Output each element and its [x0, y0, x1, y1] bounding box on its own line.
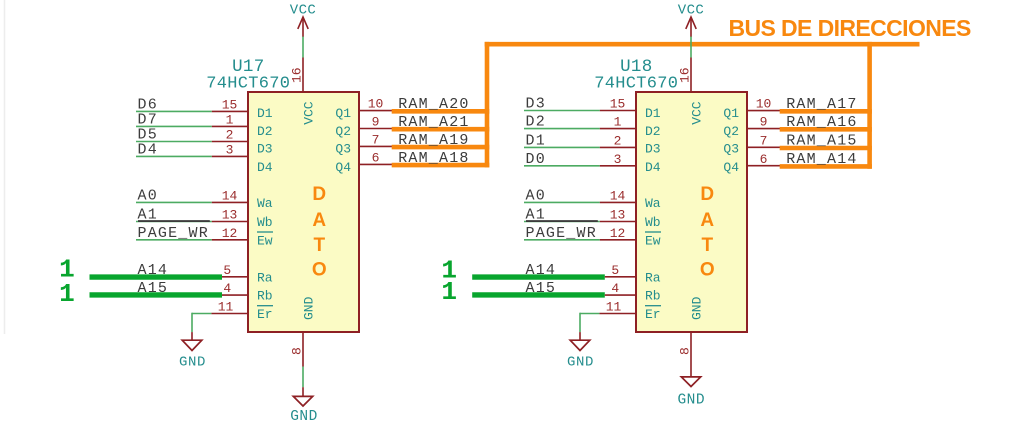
- pin 10 (Q1) of U17: [360, 110, 392, 112]
- svg-text:A14: A14: [526, 262, 557, 279]
- pin 2 (D3) of U17: [212, 141, 247, 143]
- pin 6 (Q4) of U18: [748, 165, 780, 167]
- svg-text:RAM_A19: RAM_A19: [398, 132, 469, 149]
- svg-text:D3: D3: [526, 96, 546, 113]
- svg-text:T: T: [313, 235, 325, 256]
- pin 6 (Q4) of U17: [360, 163, 392, 165]
- power symbol VCC above U17: [302, 17, 304, 37]
- svg-text:A0: A0: [138, 187, 158, 204]
- pin 14 (Wa) of U18: [600, 201, 635, 203]
- wire pin 16 to VCC: [690, 36, 692, 57]
- svg-text:3: 3: [614, 152, 622, 167]
- wire net PAGE_WR to pin 12 of U18: [524, 239, 600, 241]
- svg-text:D4: D4: [138, 141, 158, 158]
- ground symbol below U17: [293, 396, 312, 406]
- svg-text:2: 2: [226, 128, 234, 143]
- svg-text:PAGE_WR: PAGE_WR: [138, 225, 209, 242]
- wire pin 11 to GND: [580, 313, 599, 315]
- pin 11 (Er) of U17: [211, 313, 247, 315]
- svg-text:8: 8: [677, 347, 692, 355]
- pin 5 (Ra) of U18: [605, 276, 635, 278]
- svg-text:11: 11: [218, 299, 234, 314]
- svg-text:GND: GND: [677, 392, 705, 408]
- svg-text:Wa: Wa: [645, 196, 661, 211]
- svg-text:D1: D1: [257, 106, 273, 121]
- svg-text:GND: GND: [689, 296, 704, 320]
- svg-text:D1: D1: [526, 132, 546, 149]
- pin 10 (Q1) of U18: [748, 110, 780, 112]
- overline of Ew pin name: [645, 231, 661, 233]
- svg-text:Q4: Q4: [723, 160, 739, 175]
- svg-text:D3: D3: [645, 142, 661, 157]
- wire net D3 to pin 15 of U18: [524, 110, 600, 112]
- svg-text:15: 15: [610, 97, 626, 112]
- orange bus wire net RAM_A15: [780, 146, 872, 151]
- thick wire net A15 (logic 1) to pin 4 of U18: [472, 292, 605, 297]
- wire net PAGE_WR to pin 12 of U17: [136, 239, 212, 241]
- svg-text:GND: GND: [290, 409, 318, 425]
- wire net D6 to pin 15 of U17: [136, 110, 212, 112]
- svg-text:RAM_A21: RAM_A21: [398, 114, 469, 131]
- pin 7 (Q3) of U17: [360, 145, 392, 147]
- svg-text:Ra: Ra: [257, 270, 273, 285]
- svg-text:A1: A1: [138, 207, 158, 224]
- svg-text:16: 16: [289, 67, 304, 83]
- svg-text:4: 4: [611, 281, 619, 296]
- svg-text:VCC: VCC: [290, 2, 316, 18]
- bus vertical segment right (U18 outputs): [867, 42, 872, 169]
- svg-text:Q1: Q1: [723, 106, 739, 121]
- svg-text:6: 6: [760, 152, 768, 167]
- svg-text:A0: A0: [526, 187, 546, 204]
- svg-text:Q1: Q1: [335, 106, 351, 121]
- svg-text:Ew: Ew: [645, 233, 661, 248]
- svg-text:A15: A15: [138, 280, 169, 297]
- svg-text:8: 8: [289, 347, 304, 355]
- pin 12 (Ew) of U17: [212, 239, 247, 241]
- svg-text:Q3: Q3: [723, 142, 739, 157]
- power symbol VCC above U18: [690, 17, 692, 37]
- svg-text:D4: D4: [645, 160, 661, 175]
- svg-text:O: O: [700, 260, 715, 281]
- svg-text:RAM_A16: RAM_A16: [786, 114, 857, 131]
- op-amp-style IC body U17 74HCT670: [248, 92, 359, 332]
- pin 14 (Wa) of U17: [212, 201, 247, 203]
- svg-text:5: 5: [223, 263, 231, 278]
- pin 1 (D2) of U17: [212, 125, 247, 127]
- pin 9 (Q2) of U17: [360, 128, 392, 130]
- svg-text:4: 4: [223, 281, 231, 296]
- svg-text:2: 2: [614, 133, 622, 148]
- svg-text:D1: D1: [645, 106, 661, 121]
- svg-text:Q2: Q2: [335, 124, 351, 139]
- svg-text:16: 16: [677, 67, 692, 83]
- svg-text:RAM_A14: RAM_A14: [786, 151, 857, 168]
- svg-text:GND: GND: [301, 296, 316, 320]
- svg-text:D2: D2: [526, 114, 546, 131]
- svg-text:14: 14: [610, 188, 626, 203]
- orange bus wire net RAM_A16: [780, 127, 872, 132]
- svg-text:RAM_A20: RAM_A20: [398, 96, 469, 113]
- orange bus wire net RAM_A21: [392, 127, 490, 132]
- orange bus wire net RAM_A17: [780, 109, 872, 114]
- svg-text:3: 3: [226, 142, 234, 157]
- bus BUS DE DIRECCIONES horizontal top segment: [485, 42, 920, 47]
- pin 7 (Q3) of U18: [748, 146, 780, 148]
- pin 13 (Wb) of U17: [212, 221, 247, 223]
- svg-text:D4: D4: [257, 160, 273, 175]
- svg-text:13: 13: [610, 208, 626, 223]
- svg-text:BUS DE DIRECCIONES: BUS DE DIRECCIONES: [729, 15, 971, 41]
- svg-text:9: 9: [760, 115, 768, 130]
- pin 15 (D1) of U18: [600, 110, 635, 112]
- svg-text:D2: D2: [645, 124, 661, 139]
- pin 3 (D4) of U17: [212, 155, 247, 157]
- svg-text:14: 14: [222, 188, 238, 203]
- svg-text:5: 5: [611, 263, 619, 278]
- overline of Er pin name: [645, 305, 661, 307]
- wire net D1 to pin 2 of U18: [524, 146, 600, 148]
- svg-text:12: 12: [610, 226, 626, 241]
- svg-text:D3: D3: [257, 142, 273, 157]
- svg-text:Ew: Ew: [257, 233, 273, 248]
- ground symbol at pin 11 of U18: [570, 340, 590, 350]
- svg-text:A14: A14: [138, 262, 169, 279]
- thick wire net A14 (logic 1) to pin 5 of U18: [472, 274, 605, 279]
- svg-text:RAM_A15: RAM_A15: [786, 133, 857, 150]
- svg-text:1: 1: [614, 115, 622, 130]
- wire net A0 to pin 14 of U17: [136, 201, 212, 203]
- svg-text:Q3: Q3: [335, 142, 351, 157]
- svg-text:A: A: [700, 210, 714, 231]
- svg-text:D2: D2: [257, 124, 273, 139]
- dark overlay line on net A1 wire: [526, 220, 598, 222]
- svg-text:RAM_A18: RAM_A18: [398, 150, 469, 167]
- pin 11 (Er) of U18: [599, 313, 635, 315]
- wire net D5 to pin 2 of U17: [136, 141, 212, 143]
- svg-text:Q2: Q2: [723, 124, 739, 139]
- svg-text:RAM_A17: RAM_A17: [786, 96, 857, 113]
- wire pin 8 of U17 to ground: [302, 333, 304, 367]
- pin 2 (D3) of U18: [600, 146, 635, 148]
- wire pin 8 of U18 to ground: [690, 333, 692, 377]
- wire net A1 to pin 13 of U17: [136, 221, 212, 223]
- svg-text:15: 15: [222, 97, 238, 112]
- pin 15 (D1) of U17: [212, 110, 247, 112]
- svg-text:6: 6: [372, 151, 380, 166]
- pin 13 (Wb) of U18: [600, 221, 635, 223]
- pin 9 (Q2) of U18: [748, 128, 780, 130]
- pin 4 (Rb) of U18: [605, 294, 635, 296]
- svg-text:74HCT670: 74HCT670: [594, 75, 678, 94]
- svg-text:A15: A15: [526, 280, 557, 297]
- orange bus wire net RAM_A18: [392, 163, 490, 168]
- svg-text:Rb: Rb: [257, 289, 273, 304]
- orange bus wire net RAM_A19: [392, 145, 490, 150]
- wire net D7 to pin 1 of U17: [136, 125, 212, 127]
- svg-text:VCC: VCC: [689, 101, 704, 125]
- pin 1 (D2) of U18: [600, 128, 635, 130]
- svg-text:74HCT670: 74HCT670: [206, 75, 290, 94]
- wire net A0 to pin 14 of U18: [524, 201, 600, 203]
- thick wire net A15 (logic 1) to pin 4 of U17: [90, 292, 223, 297]
- svg-text:Er: Er: [645, 307, 661, 322]
- svg-text:1: 1: [226, 112, 234, 127]
- ground symbol below U18: [681, 377, 700, 387]
- orange bus wire net RAM_A20: [392, 109, 490, 114]
- ground symbol at pin 11 of U17: [182, 340, 202, 350]
- svg-text:Wb: Wb: [257, 215, 273, 230]
- pin 3 (D4) of U18: [600, 165, 635, 167]
- wire net D4 to pin 3 of U17: [136, 155, 212, 157]
- pin 12 (Ew) of U18: [600, 239, 635, 241]
- pin 16 (VCC) of U17: [302, 58, 304, 92]
- bus vertical segment left (U17 outputs): [485, 42, 490, 167]
- pin 4 (Rb) of U17: [222, 294, 247, 296]
- svg-text:D: D: [312, 184, 326, 205]
- wire net A1 to pin 13 of U18: [524, 221, 600, 223]
- svg-text:GND: GND: [179, 354, 206, 370]
- svg-text:10: 10: [368, 97, 384, 112]
- svg-text:9: 9: [372, 115, 380, 130]
- wire pin 16 to VCC: [302, 36, 304, 57]
- wire net D2 to pin 1 of U18: [524, 128, 600, 130]
- svg-text:10: 10: [756, 97, 772, 112]
- svg-text:11: 11: [606, 299, 622, 314]
- svg-text:Er: Er: [257, 307, 273, 322]
- svg-text:7: 7: [372, 133, 380, 148]
- svg-text:1: 1: [441, 277, 457, 307]
- svg-text:A1: A1: [526, 207, 546, 224]
- svg-text:13: 13: [222, 208, 238, 223]
- svg-text:12: 12: [222, 226, 238, 241]
- overline of Ew pin name: [257, 231, 273, 233]
- svg-text:GND: GND: [567, 354, 594, 370]
- svg-text:VCC: VCC: [678, 2, 704, 18]
- faint page edge line: [4, 0, 6, 334]
- overline of Er pin name: [257, 305, 273, 307]
- pin 5 (Ra) of U17: [222, 276, 247, 278]
- svg-text:D0: D0: [526, 151, 546, 168]
- svg-text:Q4: Q4: [335, 160, 351, 175]
- svg-text:Rb: Rb: [645, 289, 661, 304]
- svg-text:T: T: [701, 235, 713, 256]
- svg-text:Wa: Wa: [257, 196, 273, 211]
- svg-text:1: 1: [59, 279, 75, 309]
- svg-text:7: 7: [760, 133, 768, 148]
- svg-text:D: D: [700, 184, 714, 205]
- wire pin 11 to GND: [192, 313, 211, 315]
- svg-text:VCC: VCC: [301, 101, 316, 125]
- orange bus wire net RAM_A14: [780, 164, 872, 169]
- op-amp-style IC body U18 74HCT670: [636, 92, 747, 332]
- pin 16 (VCC) of U18: [690, 58, 692, 92]
- svg-text:A: A: [312, 210, 326, 231]
- svg-text:Ra: Ra: [645, 270, 661, 285]
- svg-text:Wb: Wb: [645, 215, 661, 230]
- dark overlay line on net A1 wire: [138, 220, 210, 222]
- svg-text:PAGE_WR: PAGE_WR: [526, 225, 597, 242]
- svg-text:O: O: [312, 260, 327, 281]
- wire net D0 to pin 3 of U18: [524, 165, 600, 167]
- thick wire net A14 (logic 1) to pin 5 of U17: [90, 274, 223, 279]
